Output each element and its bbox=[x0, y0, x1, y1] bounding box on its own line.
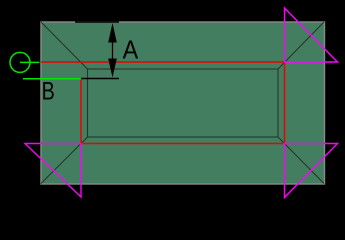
crease top-right diagonal bbox=[278, 22, 324, 69]
svg-text:A: A bbox=[123, 34, 139, 64]
dimension A extension tick top bbox=[75, 21, 119, 23]
inner base rectangle bbox=[88, 69, 279, 137]
flap triangle bottom-left (magenta) bbox=[25, 144, 81, 198]
B reference line (green) bbox=[23, 78, 81, 80]
flap triangle bottom-right (magenta) bbox=[285, 144, 338, 198]
datum circle (green) bbox=[10, 52, 30, 72]
dimension A arrow up bbox=[108, 23, 117, 43]
fold line left (red) bbox=[80, 79, 82, 144]
panel (green blank) bbox=[41, 22, 325, 184]
fold line right (red) bbox=[284, 62, 286, 144]
crease bottom-left diagonal bbox=[41, 137, 88, 184]
dimension A arrow down bbox=[108, 59, 117, 78]
fold line bottom (red) bbox=[81, 143, 285, 145]
dimension A extension tick bottom bbox=[81, 78, 119, 80]
fold line top (red) bbox=[41, 61, 285, 63]
dimension A line bbox=[112, 42, 114, 59]
crease bottom-right diagonal bbox=[278, 137, 324, 184]
crease top-left diagonal bbox=[41, 22, 88, 69]
flap triangle top-right (magenta) bbox=[285, 8, 338, 62]
datum leader line (green) bbox=[20, 61, 40, 63]
svg-text:B: B bbox=[42, 78, 55, 106]
